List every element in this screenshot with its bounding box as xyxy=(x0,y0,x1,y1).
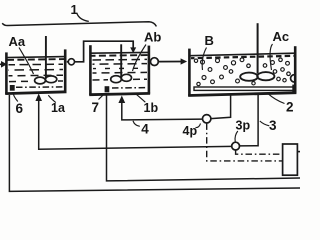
svg-text:1b: 1b xyxy=(144,101,159,115)
svg-text:6: 6 xyxy=(16,101,24,116)
svg-text:7: 7 xyxy=(92,100,100,115)
svg-text:B: B xyxy=(205,33,214,48)
svg-text:Aa: Aa xyxy=(9,34,26,49)
svg-text:3: 3 xyxy=(269,118,277,133)
svg-text:1: 1 xyxy=(71,2,78,17)
svg-text:3p: 3p xyxy=(236,119,251,133)
svg-text:4p: 4p xyxy=(183,124,198,138)
svg-text:4: 4 xyxy=(141,122,149,137)
svg-text:Ab: Ab xyxy=(144,30,161,45)
svg-text:2: 2 xyxy=(286,100,294,115)
svg-text:Ac: Ac xyxy=(273,29,290,44)
svg-text:1a: 1a xyxy=(51,101,66,115)
